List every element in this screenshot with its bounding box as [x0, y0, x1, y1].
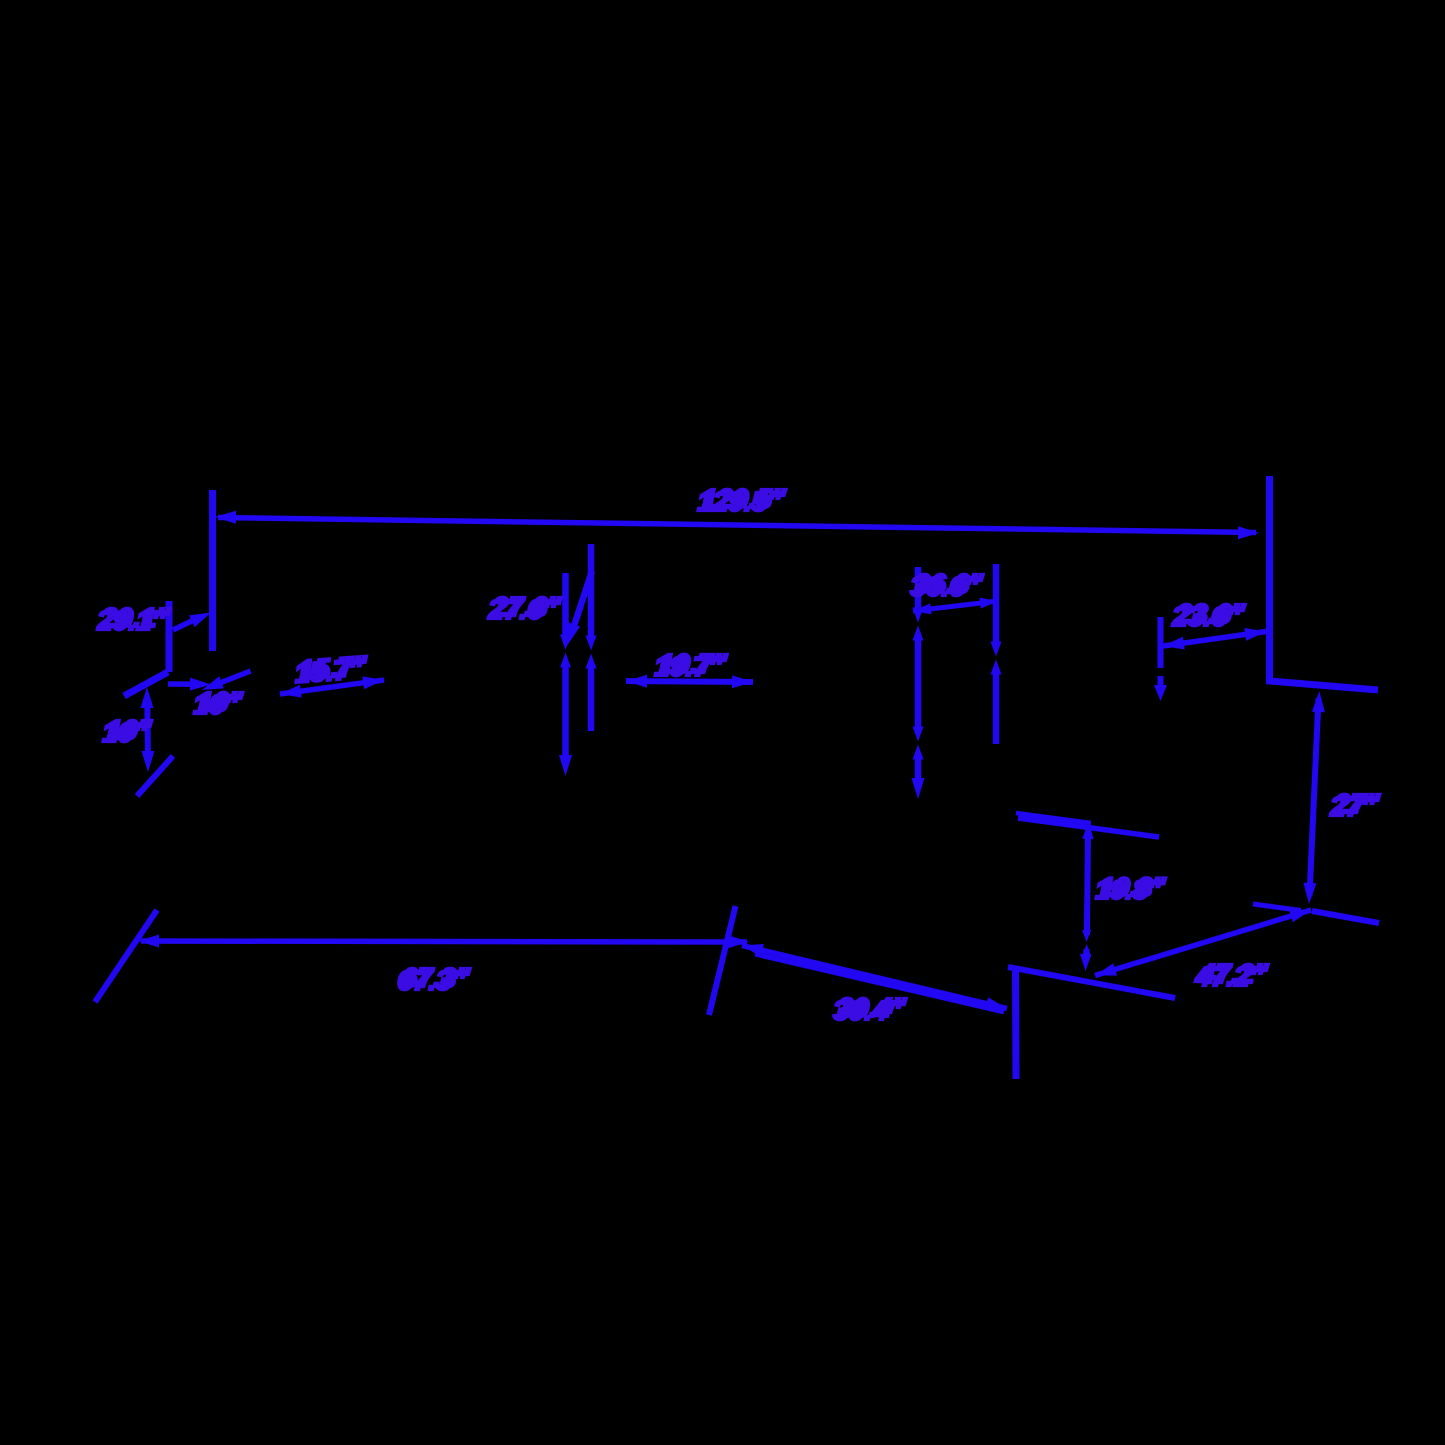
extension segment diagonal lower-left — [124, 672, 168, 696]
reference line above 19.8 — [1016, 813, 1159, 837]
svg-text:19.7″: 19.7″ — [659, 648, 728, 679]
dimension 27 vertical double arrow — [1303, 691, 1325, 904]
dimension 47.2 double arrow — [1095, 904, 1311, 976]
extension line 23.6 short vertical — [1154, 617, 1167, 701]
svg-text:19.8″: 19.8″ — [1100, 872, 1167, 902]
label 10 left — [102, 714, 153, 748]
label 39.4 — [833, 992, 907, 1026]
svg-text:29.1″: 29.1″ — [101, 602, 171, 633]
label 19.7 — [654, 648, 728, 682]
svg-text:27″: 27″ — [1334, 788, 1381, 819]
dimension 19.8 vertical double arrow — [1080, 822, 1094, 971]
label 23.6 — [1171, 598, 1246, 632]
corner slash below 10 — [137, 756, 173, 796]
dimension 15.7 double arrow — [280, 676, 384, 697]
dimension 19.7 double arrow — [626, 675, 753, 689]
svg-text:27.6″: 27.6″ — [492, 591, 562, 622]
leader arrow 29.1 — [173, 613, 211, 631]
dim 27.6 right vertical with opposing arrowheads — [586, 544, 597, 731]
dimension 67.3 — [138, 935, 749, 949]
dimension 23.6 arrow — [1163, 628, 1266, 650]
label 67.3 — [397, 962, 471, 996]
label 36.6 — [910, 568, 984, 602]
label 47.2 — [1194, 958, 1269, 992]
bottom step top edge — [1008, 967, 1175, 998]
extension line left of 129.5 dim — [209, 490, 216, 651]
label 27.6 — [487, 591, 562, 625]
dim 27.6 left vertical with opposing arrowheads — [559, 573, 572, 776]
dimension 36.6 arrow — [913, 598, 998, 615]
label 129.5 — [697, 483, 787, 517]
dimension line 129.5 — [215, 511, 1259, 539]
extension line right of 129.5 and top edge of right arm — [1270, 476, 1379, 690]
arrow 10 diagonal — [202, 671, 251, 690]
corner slash right of 67.3 — [709, 906, 736, 1015]
label 15.7 — [293, 650, 370, 689]
svg-text:39.4″: 39.4″ — [838, 992, 907, 1023]
svg-text:47.2″: 47.2″ — [1199, 958, 1269, 989]
svg-text:67.3″: 67.3″ — [402, 962, 471, 993]
svg-text:129.5″: 129.5″ — [702, 483, 787, 514]
bottom edge of right arm — [1312, 911, 1379, 923]
svg-text:36.6″: 36.6″ — [915, 568, 984, 599]
arrow 10 horizontal — [168, 678, 211, 691]
label 27 — [1329, 788, 1381, 822]
corner slash left of 67.3 — [95, 910, 157, 1002]
svg-text:10″: 10″ — [198, 686, 244, 717]
dim 36.6 right vertical with opposing arrowheads — [991, 564, 1002, 744]
label 19.8 — [1095, 872, 1167, 905]
extension segment 29.1 vertical — [166, 601, 173, 672]
svg-text:10″: 10″ — [107, 714, 153, 745]
dim 36.6 left vertical chained arrows — [912, 567, 925, 799]
svg-text:15.7″: 15.7″ — [298, 650, 369, 686]
label 10 second — [193, 686, 244, 720]
bottom step left edge — [1012, 966, 1020, 1079]
svg-text:23.6″: 23.6″ — [1176, 598, 1246, 629]
leader arrow 27.6 — [566, 571, 592, 647]
dimension 10 vertical double arrow — [141, 687, 155, 772]
label 29.1 — [96, 602, 171, 636]
dimension 39.4 double arrow — [742, 944, 1007, 1012]
